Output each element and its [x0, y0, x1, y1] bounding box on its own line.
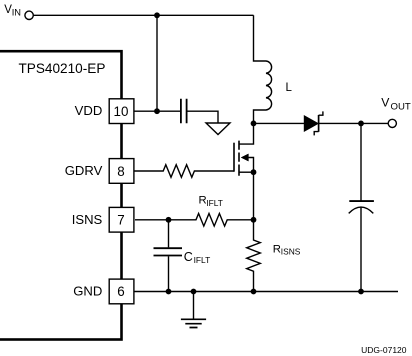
svg-text:C: C	[184, 250, 193, 264]
svg-text:GND: GND	[73, 283, 102, 298]
svg-text:VDD: VDD	[75, 103, 103, 118]
svg-text:R: R	[273, 243, 281, 255]
svg-text:L: L	[286, 82, 293, 94]
svg-text:IFLT: IFLT	[194, 255, 211, 265]
svg-text:IN: IN	[12, 7, 21, 17]
svg-text:TPS40210-EP: TPS40210-EP	[19, 61, 106, 76]
svg-text:OUT: OUT	[391, 102, 411, 113]
svg-text:GDRV: GDRV	[65, 163, 103, 178]
svg-text:6: 6	[117, 284, 124, 299]
svg-text:10: 10	[114, 104, 129, 119]
svg-text:8: 8	[117, 164, 124, 179]
svg-text:7: 7	[117, 213, 124, 228]
svg-text:ISNS: ISNS	[72, 212, 103, 227]
svg-text:V: V	[381, 96, 390, 110]
svg-text:ISNS: ISNS	[281, 247, 301, 257]
svg-text:IFLT: IFLT	[206, 198, 223, 208]
svg-text:UDG-07120: UDG-07120	[361, 345, 407, 355]
